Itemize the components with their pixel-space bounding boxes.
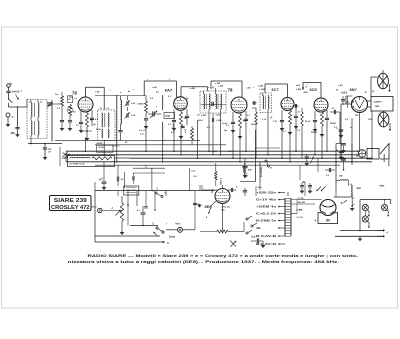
svg-text:6A7: 6A7 (165, 87, 173, 92)
svg-text:B-B: B-B (252, 237, 256, 239)
svg-text:GIALLO: GIALLO (219, 177, 222, 185)
svg-text:22n: 22n (258, 187, 262, 189)
svg-text:1200: 1200 (375, 106, 381, 108)
svg-text:a 440: a 440 (190, 87, 196, 90)
svg-text:BOBINA: BOBINA (383, 154, 386, 162)
svg-text:3-4x10: 3-4x10 (12, 91, 20, 94)
svg-text:25 uF: 25 uF (305, 121, 311, 123)
svg-text:Cm: Cm (55, 94, 59, 96)
svg-text:L.308: L.308 (218, 86, 224, 88)
svg-text:C+6,3 2V: C+6,3 2V (256, 212, 277, 216)
svg-text:80: 80 (326, 218, 330, 222)
svg-text:3mxF: 3mxF (222, 123, 228, 125)
svg-text:AB: AB (256, 226, 261, 230)
svg-text:p.m.: p.m. (140, 134, 145, 136)
svg-text:6C5: 6C5 (310, 87, 318, 92)
svg-text:350+350: 350+350 (298, 202, 305, 204)
svg-text:1 M: 1 M (193, 176, 197, 178)
svg-text:B 4BB: B 4BB (297, 209, 304, 212)
svg-text:CROSLEY 472: CROSLEY 472 (51, 205, 90, 211)
svg-text:78: 78 (72, 91, 77, 96)
svg-text:2max: 2max (169, 236, 176, 239)
svg-text:G.500 a: G.500 a (112, 146, 120, 148)
svg-text:MERID: MERID (97, 143, 104, 145)
svg-text:a 440: a 440 (258, 85, 264, 88)
svg-text:Gz 50000 anodo: Gz 50000 anodo (70, 163, 86, 165)
svg-text:8uF: 8uF (248, 170, 253, 172)
svg-text:CAMPO: CAMPO (374, 101, 382, 104)
svg-text:+: + (315, 219, 317, 223)
svg-text:MOBILE: MOBILE (388, 158, 390, 166)
svg-text:+1/2 B: +1/2 B (341, 93, 348, 95)
svg-text:r.650: r.650 (303, 91, 309, 94)
svg-text:5 V 2A: 5 V 2A (298, 197, 305, 200)
svg-text:B: B (341, 202, 343, 205)
svg-text:0,1: 0,1 (247, 173, 249, 176)
svg-text:L.465: L.465 (296, 88, 302, 91)
svg-text:L.Tu B: L.Tu B (297, 217, 304, 219)
svg-text:a m3: a m3 (191, 170, 197, 172)
svg-text:50000: 50000 (330, 123, 337, 125)
svg-text:B.P.M: B.P.M (228, 151, 234, 153)
svg-text:A: A (167, 241, 169, 245)
svg-text:G+1V 40o: G+1V 40o (256, 198, 277, 202)
svg-text:1 uF: 1 uF (262, 119, 267, 121)
svg-text:B 6,3V-B: B 6,3V-B (256, 234, 276, 238)
svg-text:RADIO SIARE — Modelli « Si: RADIO SIARE — Modelli « Siare 239 » e « … (88, 253, 360, 258)
svg-text:Qz: Qz (186, 98, 189, 100)
svg-text:200: 200 (11, 132, 16, 135)
svg-text:400mv: 400mv (91, 206, 98, 209)
svg-text:0,1 uF: 0,1 uF (139, 130, 146, 132)
svg-text:dian: dian (380, 186, 385, 188)
svg-text:fono: fono (176, 224, 182, 226)
svg-text:-4: -4 (21, 89, 23, 92)
svg-text:L.300: L.300 (201, 115, 207, 117)
svg-text:SIARE 239: SIARE 239 (54, 198, 87, 204)
svg-text:+520 22o: +520 22o (256, 191, 277, 195)
svg-text:dial: dial (357, 187, 361, 190)
svg-text:20000: 20000 (311, 132, 318, 134)
svg-text:= 650: = 650 (208, 86, 215, 89)
svg-text:50000: 50000 (138, 104, 145, 106)
svg-text:1 M: 1 M (273, 121, 277, 123)
svg-text:(?): (?) (197, 115, 200, 117)
svg-text:+GEM 4o: +GEM 4o (256, 205, 277, 209)
svg-text:C: C (153, 223, 155, 226)
svg-text:T: T (12, 115, 14, 119)
svg-text:a BRA: a BRA (211, 150, 218, 153)
svg-text:78: 78 (228, 88, 233, 93)
svg-text:ALTOPARL.: ALTOPARL. (260, 165, 263, 177)
svg-text:L.300: L.300 (216, 120, 222, 122)
svg-text:50000: 50000 (251, 124, 258, 126)
svg-text:8C: 8C (121, 179, 124, 181)
svg-text:6N7: 6N7 (350, 87, 357, 92)
svg-text:6-50: 6-50 (165, 116, 170, 118)
svg-text:nizzatura visiva a tubo a: nizzatura visiva a tubo a raggi catodici… (68, 259, 339, 264)
svg-text:sintonia: sintonia (222, 206, 231, 209)
svg-text:B-GBB 3o: B-GBB 3o (256, 219, 277, 223)
svg-text:6C7: 6C7 (272, 87, 279, 92)
